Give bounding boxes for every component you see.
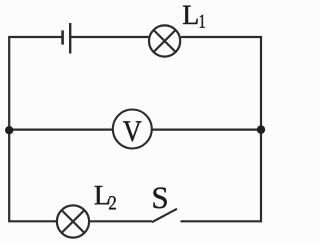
label S (153, 187, 166, 208)
battery B1 short plate (negative) (61, 30, 64, 44)
battery B1 long plate (positive) (69, 23, 71, 54)
wire: middle branch left segment (9, 129, 113, 131)
lamp L1 cross stroke 2 (154, 30, 176, 52)
label L1 (183, 6, 198, 24)
wire: top-left horizontal + left vertical + bottom-left horizontal (9, 37, 61, 221)
lamp L2 circle (57, 205, 89, 237)
label L2 (95, 186, 110, 204)
switch S lever (open) (152, 209, 177, 222)
voltmeter U1 letter V (123, 121, 141, 141)
wire: middle branch right segment (152, 129, 261, 131)
lamp L2 cross stroke 1 (62, 210, 85, 233)
wire: lamp L2 to switch segment (90, 220, 152, 222)
node: left junction dot (5, 126, 13, 134)
wire: battery to lamp L1 segment (71, 36, 149, 38)
lamp L1 cross stroke 1 (154, 30, 176, 52)
node: right junction dot (257, 125, 265, 133)
voltmeter U1 circle (113, 110, 152, 149)
wire: top-right horizontal + right vertical + bottom-right horizontal (181, 37, 262, 221)
lamp L1 circle (149, 25, 180, 56)
lamp L2 cross stroke 2 (62, 210, 85, 233)
